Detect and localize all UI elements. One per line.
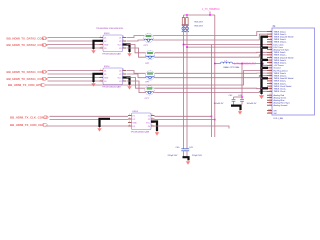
wire column A SCL xyxy=(211,45,213,138)
wire FL4 out bot xyxy=(154,91,267,92)
svg-text:D2: D2 xyxy=(104,41,106,43)
svg-text:Z4: Z4 xyxy=(148,126,150,128)
svg-text:8: 8 xyxy=(270,49,271,51)
label C40 value xyxy=(168,155,178,157)
svg-text:C3: C3 xyxy=(269,99,271,101)
wire rail to R46 xyxy=(186,15,188,18)
label C41 value xyxy=(192,155,202,157)
svg-text:Z2: Z2 xyxy=(148,119,150,121)
wire FL3 out top xyxy=(155,72,267,74)
svg-text:C40: C40 xyxy=(176,147,181,149)
wire ESD4 out2 jog xyxy=(127,74,146,78)
wire FL1 out bot xyxy=(153,34,267,40)
svg-text:TMDS Data5+: TMDS Data5+ xyxy=(274,82,288,85)
svg-text:GND: GND xyxy=(133,122,138,124)
svg-text:TMDS Data4-: TMDS Data4- xyxy=(274,38,287,41)
svg-text:TPD4E02B04DQAR: TPD4E02B04DQAR xyxy=(102,52,121,55)
svg-text:BB_HDMI_TX_DATA2_CON_N: BB_HDMI_TX_DATA2_CON_N xyxy=(7,43,48,47)
hier label BB_HDMI_TX_CEC xyxy=(10,123,48,127)
label C42 value xyxy=(214,103,224,105)
svg-text:ESD3: ESD3 xyxy=(104,33,110,35)
svg-text:Z1: Z1 xyxy=(119,37,121,39)
svg-text:D2: D2 xyxy=(104,74,106,76)
svg-text:6: 6 xyxy=(270,43,271,45)
wire D2_P to ESD3 xyxy=(48,37,100,39)
wire thick shield bus xyxy=(260,37,268,94)
wire ESD3 out3 jog xyxy=(127,45,146,53)
svg-text:TMDS Data0+: TMDS Data0+ xyxy=(274,74,288,77)
label OPT FL3 xyxy=(145,81,150,83)
capacitor C42 xyxy=(229,95,236,104)
junction SDA xyxy=(186,46,188,48)
label OPT FL2 xyxy=(145,63,150,65)
svg-text:D2: D2 xyxy=(133,119,135,121)
wire power rail xyxy=(184,12,216,16)
svg-text:D3: D3 xyxy=(104,81,106,83)
ground below ESD3 left xyxy=(91,49,95,54)
wire ESD3 out1 jog xyxy=(127,36,145,38)
svg-text:OPT: OPT xyxy=(144,45,149,47)
svg-text:R45 4K7: R45 4K7 xyxy=(195,21,204,23)
wire FL2 out top xyxy=(155,51,267,54)
svg-text:20: 20 xyxy=(270,80,272,82)
svg-text:SH: SH xyxy=(274,113,277,115)
label OPT FL4 xyxy=(145,98,150,100)
power net label 5_TX_HDMI5V0_FLT xyxy=(234,64,257,66)
svg-text:TMDS Data4+: TMDS Data4+ xyxy=(274,41,288,44)
svg-text:100nF6.3V: 100nF6.3V xyxy=(247,103,257,105)
junction bead net xyxy=(241,63,243,65)
svg-text:ESD4: ESD4 xyxy=(104,66,110,68)
inductor choke FL4 (OPT) xyxy=(145,86,154,95)
wire D1_N2 to ESD4 xyxy=(48,80,100,82)
wire ESD6 out2 xyxy=(155,119,215,121)
power net label 1_TX_HDMI5V0 xyxy=(202,8,220,11)
wire thick gnd left of ESD4 xyxy=(94,74,104,82)
svg-text:OPT: OPT xyxy=(145,81,150,83)
connector X2 pin names xyxy=(274,30,294,115)
svg-text:ESD6: ESD6 xyxy=(133,111,139,113)
svg-text:18: 18 xyxy=(270,75,272,77)
capacitor C43 xyxy=(238,95,244,104)
svg-text:C5: C5 xyxy=(269,104,271,106)
wire SCL column xyxy=(183,25,185,149)
inductor L4 ferrite bead xyxy=(221,60,233,63)
svg-text:Ground: Ground xyxy=(274,67,281,70)
wire 5V tap to bead xyxy=(215,63,221,65)
svg-text:2: 2 xyxy=(270,33,271,35)
wire 5V to caps xyxy=(241,64,243,100)
ground below caps C42 C43 xyxy=(238,110,242,115)
svg-text:220pF 50V: 220pF 50V xyxy=(192,155,202,157)
wire ESD3 out2 xyxy=(127,40,145,41)
svg-text:Z1: Z1 xyxy=(148,115,150,117)
junction at rail left xyxy=(186,14,188,16)
svg-text:TMDS Data2-: TMDS Data2- xyxy=(274,30,287,33)
svg-text:TPD4E02B04 USB HDMI ESD: TPD4E02B04 USB HDMI ESD xyxy=(96,28,124,30)
svg-text:TMDS Data5-: TMDS Data5- xyxy=(274,80,287,83)
junction dots on shield bus xyxy=(261,47,262,89)
svg-text:GND: GND xyxy=(104,77,109,79)
junction at 5V pin xyxy=(262,63,264,65)
ground below ESD4 left xyxy=(91,82,95,87)
wire after bead xyxy=(233,64,268,66)
wire D2_N to ESD3 xyxy=(48,44,100,46)
svg-text:Analog Ground: Analog Ground xyxy=(274,104,288,107)
svg-text:VCC: VCC xyxy=(146,122,151,124)
svg-text:TMDS Data1-: TMDS Data1- xyxy=(274,51,287,54)
junction at rail right xyxy=(209,14,211,16)
svg-text:BB_HDMI_TX_DATA1_CON_P: BB_HDMI_TX_DATA1_CON_P xyxy=(7,70,48,74)
connector X2 pins xyxy=(267,32,272,114)
resistor R46 xyxy=(185,18,189,33)
wire thick gnd left of ESD3 xyxy=(94,41,104,49)
svg-text:+5V Power: +5V Power xyxy=(274,64,284,67)
svg-text:14: 14 xyxy=(270,64,272,66)
svg-text:C4: C4 xyxy=(269,102,271,104)
svg-text:SH2: SH2 xyxy=(268,112,271,114)
wire SDA to DDC Data pin xyxy=(187,46,267,48)
ground below ESD6 right xyxy=(155,131,159,136)
svg-text:1_TX_HDMI5V0: 1_TX_HDMI5V0 xyxy=(202,8,220,11)
svg-text:BB_HDMI_TX_CON_CEC: BB_HDMI_TX_CON_CEC xyxy=(10,123,45,127)
junction clk A xyxy=(211,116,213,118)
connector X2 pin numbers xyxy=(268,30,271,114)
label R45 4K7 xyxy=(195,21,204,23)
wire FL3 out bot xyxy=(155,76,267,78)
svg-text:D1: D1 xyxy=(104,70,106,72)
svg-text:Z4: Z4 xyxy=(119,48,121,50)
svg-text:17: 17 xyxy=(270,72,272,74)
wire thick gnd right of ESD4 xyxy=(123,78,130,86)
wire ESD4 out1 jog xyxy=(127,71,146,74)
label R46 4K7 xyxy=(195,25,204,27)
svg-text:R46 4K7: R46 4K7 xyxy=(195,25,204,27)
label OPT FL1 xyxy=(144,45,149,47)
wire SCL to DDC Clock pin xyxy=(184,44,268,46)
svg-text:D3: D3 xyxy=(104,48,106,50)
svg-text:7: 7 xyxy=(270,46,271,48)
label X2 value DVI-I-RA xyxy=(274,117,284,120)
wire cap branch xyxy=(234,97,243,99)
wire CEC out xyxy=(155,126,230,129)
hier label BB_HDMI_TX_HPD xyxy=(8,83,46,87)
svg-text:5_TX_HDMI5V0_FLT: 5_TX_HDMI5V0_FLT xyxy=(234,64,257,66)
svg-text:10: 10 xyxy=(270,54,272,56)
op-amp U_ESD4 (TPD4E02B04 ESD diode array) xyxy=(100,66,127,88)
svg-text:13: 13 xyxy=(270,62,272,64)
ground below ESD6 left xyxy=(97,127,101,132)
svg-text:BB_HDMI_TX_DATA1_CON_N: BB_HDMI_TX_DATA1_CON_N xyxy=(7,77,48,81)
svg-text:TMDS Data2/4 Shield: TMDS Data2/4 Shield xyxy=(274,35,294,38)
svg-text:Analog Vert Sync: Analog Vert Sync xyxy=(274,48,290,51)
svg-text:4: 4 xyxy=(270,38,271,40)
wire D2_N2 to ESD3 xyxy=(48,47,100,49)
svg-text:21: 21 xyxy=(270,82,272,84)
svg-text:Z2: Z2 xyxy=(119,74,121,76)
capacitor C40 xyxy=(176,147,186,157)
wire FL1 out top xyxy=(153,32,267,36)
wire HPD to connector xyxy=(46,71,268,86)
svg-text:TMDS Data0-: TMDS Data0- xyxy=(274,72,287,75)
svg-text:Hot Plug Detect: Hot Plug Detect xyxy=(274,69,289,72)
svg-text:BB_HDMI_TX_DATA2_CON_P: BB_HDMI_TX_DATA2_CON_P xyxy=(7,36,48,40)
svg-text:1: 1 xyxy=(270,30,271,32)
svg-text:C41: C41 xyxy=(189,147,194,149)
svg-text:SH1: SH1 xyxy=(268,110,271,112)
svg-text:C2: C2 xyxy=(269,97,271,99)
svg-text:9: 9 xyxy=(270,51,271,53)
ground below C40 C41 xyxy=(186,160,190,165)
svg-text:TMDS Clock-: TMDS Clock- xyxy=(274,91,286,93)
resistor R45 xyxy=(182,18,186,33)
svg-text:TMDS Data1/3 Shield: TMDS Data1/3 Shield xyxy=(274,56,294,59)
wire rail to R45 xyxy=(183,15,185,18)
hier label BB_HDMI_TX_D2_N xyxy=(7,43,48,47)
junction 5V tap xyxy=(214,63,216,65)
svg-text:C42: C42 xyxy=(229,95,234,97)
wire column B 5V xyxy=(214,15,216,137)
wire ESD6 out1 xyxy=(155,115,212,117)
label TPD4E02B04 line1 xyxy=(96,28,124,30)
svg-text:TMDS Data2+: TMDS Data2+ xyxy=(274,33,288,36)
svg-text:TPD4E02B04DQAR: TPD4E02B04DQAR xyxy=(131,130,150,133)
svg-text:12: 12 xyxy=(270,59,272,61)
label X2 designator xyxy=(273,26,277,28)
svg-text:24: 24 xyxy=(270,90,272,92)
inductor choke FL2 (OPT) xyxy=(145,50,154,59)
wire CEC to ESD6 xyxy=(46,125,129,127)
wire D1_N to ESD4 xyxy=(48,77,100,79)
op-amp U_ESD3 (TPD4E02B04 ESD diode array) xyxy=(100,33,127,55)
label C43 value xyxy=(247,103,257,105)
ground below ESD4 right xyxy=(127,85,131,90)
hier label BB_HDMI_TX_D1_P xyxy=(7,70,48,74)
svg-text:VCC: VCC xyxy=(118,44,123,46)
svg-text:VCC: VCC xyxy=(118,77,123,79)
capacitor C41 xyxy=(185,147,194,157)
svg-text:11: 11 xyxy=(270,56,272,58)
svg-text:BB_HDMI_TX_CLK_CON_P: BB_HDMI_TX_CLK_CON_P xyxy=(10,115,48,119)
svg-text:DVI-I_RA: DVI-I_RA xyxy=(274,117,284,120)
wire SDA column xyxy=(186,25,188,149)
svg-text:15: 15 xyxy=(270,67,272,69)
junction SCL xyxy=(183,44,185,46)
svg-text:TMDS Data0/5 Shield: TMDS Data0/5 Shield xyxy=(274,77,294,80)
wire ESD4 out4 jog xyxy=(127,81,146,93)
inductor choke FL1 (OPT) xyxy=(144,33,153,42)
ground below ESD3 right xyxy=(127,52,131,57)
ground below shield bus xyxy=(259,94,264,99)
hier label BB_HDMI_TX_D1_N xyxy=(7,77,48,81)
svg-text:Z1: Z1 xyxy=(119,70,121,72)
svg-text:DDC Data: DDC Data xyxy=(274,46,284,49)
svg-text:3: 3 xyxy=(270,36,271,38)
svg-text:C1: C1 xyxy=(269,94,271,96)
wire ESD3 out4 jog xyxy=(127,48,146,57)
svg-text:D1: D1 xyxy=(104,37,106,39)
svg-text:TPD4E02B04DQAR: TPD4E02B04DQAR xyxy=(102,85,121,88)
svg-text:TMDS Data3+: TMDS Data3+ xyxy=(274,61,288,64)
svg-text:BEAD OPTIONAL: BEAD OPTIONAL xyxy=(224,66,241,69)
junction caps top xyxy=(241,96,243,98)
wire thick gnd right of ESD6 xyxy=(151,122,157,132)
svg-text:D1: D1 xyxy=(133,115,135,117)
wire FL2 out bot xyxy=(155,55,267,57)
svg-text:19: 19 xyxy=(270,77,272,79)
svg-text:Z2: Z2 xyxy=(119,41,121,43)
wire ESD4 out3 jog xyxy=(127,78,146,89)
wire thick gnd left of ESD6 xyxy=(100,119,111,127)
svg-text:OPT: OPT xyxy=(145,63,150,65)
op-amp U_ESD6 (TPD4E02B04 ESD diode array) xyxy=(128,111,155,133)
wire thick caps gnd xyxy=(231,106,241,110)
inductor choke FL3 (OPT) xyxy=(145,71,154,80)
svg-text:5: 5 xyxy=(270,41,271,43)
wire FL4 out top xyxy=(154,87,267,90)
svg-text:BB_HDMI_TX_CON_HPD: BB_HDMI_TX_CON_HPD xyxy=(8,83,42,87)
svg-text:220pF 50V: 220pF 50V xyxy=(168,155,178,157)
svg-text:TMDS Data3-: TMDS Data3- xyxy=(274,59,287,62)
wire thick bottom gnd xyxy=(183,157,189,160)
hier label BB_HDMI_TX_D2_P xyxy=(7,36,48,40)
svg-text:100nF6.3V: 100nF6.3V xyxy=(214,103,224,105)
connector X2 body xyxy=(272,28,315,115)
svg-text:Z4: Z4 xyxy=(119,81,121,83)
wire thick gnd right of ESD3 xyxy=(123,45,130,53)
wire D1_P2 to ESD4 xyxy=(48,73,100,75)
label BEAD OPTIONAL xyxy=(224,66,241,69)
svg-text:23: 23 xyxy=(270,88,272,90)
hier label BB_HDMI_TX_CLK_P xyxy=(10,115,49,119)
svg-text:16: 16 xyxy=(270,69,272,71)
svg-text:D3: D3 xyxy=(133,126,135,128)
svg-text:OPT: OPT xyxy=(145,98,150,100)
svg-text:GND: GND xyxy=(104,44,109,46)
svg-text:TMDS Data1+: TMDS Data1+ xyxy=(274,54,288,57)
junction clk B xyxy=(214,119,216,121)
wire D2_P2 to ESD3 xyxy=(48,40,100,42)
wire D1_P to ESD4 xyxy=(48,70,100,72)
svg-text:22: 22 xyxy=(270,85,272,87)
wire CLK_P2 to ESD6 xyxy=(50,119,129,121)
wire CLK_P to ESD6 xyxy=(50,115,129,117)
